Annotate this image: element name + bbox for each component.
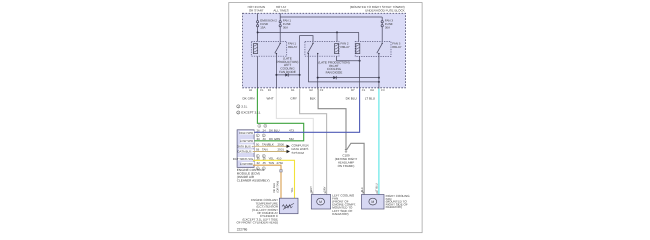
wire relay3 coil to DK BLU exit [359,56,361,89]
svg-text:50: 50 [256,142,260,146]
wire LT BLU [378,89,380,195]
svg-text:SYSTEM: SYSTEM [292,151,305,155]
svg-text:TAN/BLK: TAN/BLK [262,142,274,146]
svg-text:HIGH SPD: HIGH SPD [239,131,253,135]
wire relay2 no to BLK exit [317,56,319,89]
inline connector on tan wire [280,170,283,172]
svg-text:DATA BUS +: DATA BUS + [237,144,254,148]
note circles row1 [258,124,267,127]
svg-text:532: 532 [289,137,294,141]
svg-text:E1: E1 [291,89,295,92]
svg-text:DK BLU: DK BLU [346,96,357,100]
svg-text:ECT SENS SIG: ECT SENS SIG [233,157,254,161]
svg-text:LT BLU: LT BLU [375,183,378,192]
right cooling fan label [386,194,411,209]
wire relay1 coil to DK GRN exit [256,56,258,89]
svg-text:30A: 30A [283,25,288,29]
ECM box [237,130,254,168]
note circles row7 [256,167,265,170]
svg-text:GRY: GRY [324,186,327,192]
junction dot fuse1/bus [257,31,259,33]
wire relay1 switch out to WHT exit [275,56,277,89]
svg-text:LT BLU: LT BLU [365,96,375,100]
svg-text:3.1L: 3.1L [241,105,247,109]
wire relay3 switch out to LT BLU exit [378,56,380,89]
note circles row2 [256,134,265,137]
wire BLK lower to right fan [347,143,365,194]
svg-text:BLK: BLK [361,187,364,192]
junction dot relay2 coil/bus [336,31,338,33]
svg-text:DATA BUS -: DATA BUS - [238,149,254,153]
note circles row5 [256,154,265,157]
wire fuse2 to relay1 switch [279,27,281,42]
fuse FAN 3 30A [381,21,383,27]
relay K2 FAN 2 RELAY [305,42,339,57]
svg-text:GRY: GRY [290,96,297,100]
svg-text:222786: 222786 [237,228,248,232]
label UNDERHOOD FUSE BLOCK [350,5,405,12]
svg-text:LOW REF: LOW REF [240,162,253,166]
row2 pins LOW SPD [257,137,295,141]
relay K1 FAN 1 RELAY [251,42,286,57]
wire DK GRN [253,89,304,141]
diode right cooling fan [333,76,336,79]
right diode bus [318,77,379,79]
svg-text:26: 26 [257,128,261,132]
left cooling fan box [311,195,330,210]
ECM pin label strips [238,131,255,165]
relay K3 FAN 3 RELAY [355,42,391,57]
row4 pins DATA BUS - [256,148,284,152]
page border frame [229,3,422,233]
wire WHT [276,89,313,195]
svg-text:RADIATOR): RADIATOR) [332,212,348,216]
thermistor symbol [282,205,293,208]
wire relay2 coil to dk blu [337,56,360,61]
svg-text:24: 24 [263,128,267,132]
wire data bus + [253,145,287,147]
svg-text:43: 43 [249,89,252,92]
wire fuse1 feed [257,13,259,21]
label computer data lines [292,144,310,155]
ECM pin labels [233,131,254,166]
diode left cooling fan [285,73,288,76]
note 1 3.1L [237,105,248,109]
underhood fuse block box [243,13,406,88]
left diode bus [276,74,299,76]
svg-text:ALL TIMES: ALL TIMES [273,8,288,12]
svg-text:EXCEPT 3.1L: EXCEPT 3.1L [241,111,260,115]
ECT sensor box [279,198,298,214]
left fan motor [317,198,325,205]
svg-text:YEL: YEL [291,187,294,193]
svg-text:M: M [371,200,374,204]
svg-text:30A: 30A [385,25,390,29]
wire data bus - [253,151,287,153]
svg-text:ON FRAME): ON FRAME) [338,164,355,168]
wire YEL [253,160,295,198]
svg-text:F2: F2 [268,89,272,92]
svg-text:LOW SPD: LOW SPD [240,139,253,143]
connector pin labels under fuse box [249,89,385,92]
right fan pin letters [362,192,378,195]
rotated label DK BLU (OR TAN) [273,181,279,193]
svg-text:RADIATOR): RADIATOR) [386,205,402,209]
wire fuse1 to coil bus [257,27,259,42]
wire relay2 nc to lt blu bus [309,56,379,82]
label HOT AT ALL TIMES [273,5,288,12]
svg-text:30: 30 [257,137,261,141]
wire bus to relay3 coil [358,32,360,41]
connector C109 chevrons [345,149,347,150]
svg-text:C2: C2 [320,89,324,92]
row3 pins DATA BUS + [256,142,284,146]
svg-text:(OR TAN): (OR TAN) [276,181,279,193]
fuse FAN 1 30A [279,21,281,27]
svg-text:473: 473 [289,128,294,132]
fuse EMISSION 2 15A [257,21,259,27]
row1 pins HIGH SPD [257,128,295,132]
svg-text:32: 32 [257,161,261,165]
wire hot-at-all-times bus [279,13,281,21]
svg-text:45: 45 [263,161,267,165]
svg-text:TAN: TAN [262,148,268,152]
ECM label [237,168,270,183]
svg-text:OR START: OR START [249,8,264,12]
svg-text:40: 40 [263,137,267,141]
svg-text:D7: D7 [351,89,355,92]
svg-text:DK GRN: DK GRN [269,137,280,141]
wire GRY [300,89,327,195]
svg-text:E2: E2 [310,89,314,92]
wire DK BLU [253,89,360,133]
wire BLK upper [318,89,346,151]
svg-text:M: M [319,200,322,204]
svg-text:58: 58 [256,148,260,152]
row6 pins LOW REF [257,161,284,165]
svg-text:C1: C1 [362,89,366,92]
right fan motor [369,198,377,205]
row5 pins ECT SENS SIG [257,156,282,160]
label C109 [335,154,358,168]
svg-text:WHT: WHT [267,96,274,100]
svg-text:FAN DIODE: FAN DIODE [326,71,343,75]
svg-text:2501: 2501 [278,148,285,152]
svg-text:RELAY: RELAY [341,45,350,49]
left fan pin letters [312,192,327,195]
svg-text:UNDERHOOD FUSE BLOCK: UNDERHOOD FUSE BLOCK [365,8,405,12]
svg-text:TAN: TAN [269,161,275,165]
wire bus to relay2 coil [336,32,338,41]
svg-text:C1: C1 [260,89,264,92]
wire color labels below box [242,96,375,100]
wire TAN low ref [253,165,281,198]
svg-text:DK BLU: DK BLU [269,128,279,132]
wire gry riser to relay2 switch [300,36,313,88]
label HOT IN RUN OR START [248,5,265,12]
svg-text:FAN DIODE: FAN DIODE [279,70,296,74]
svg-text:C3: C3 [381,89,385,92]
wire fuse3 to relay3 switch [381,27,383,42]
svg-text:BLK: BLK [310,96,317,100]
svg-text:DK GRN: DK GRN [242,96,254,100]
svg-text:2760: 2760 [277,161,284,165]
svg-text:WHT: WHT [310,186,313,192]
svg-text:D4: D4 [370,89,374,92]
svg-text:RELAY: RELAY [392,45,401,49]
ECT sensor label [237,198,279,224]
note 2 EXCEPT 3.1L [237,111,261,115]
right cooling fan box [362,195,385,210]
svg-text:OF FRONT CYLINDER HEAD): OF FRONT CYLINDER HEAD) [237,221,278,225]
left cooling fan label [332,193,356,216]
svg-text:2500: 2500 [278,142,285,146]
wire coil bus [258,31,359,33]
svg-text:15A: 15A [260,25,265,29]
svg-text:RELAY: RELAY [288,45,297,49]
svg-text:CLEANER ASSEMBLY): CLEANER ASSEMBLY) [237,178,270,182]
